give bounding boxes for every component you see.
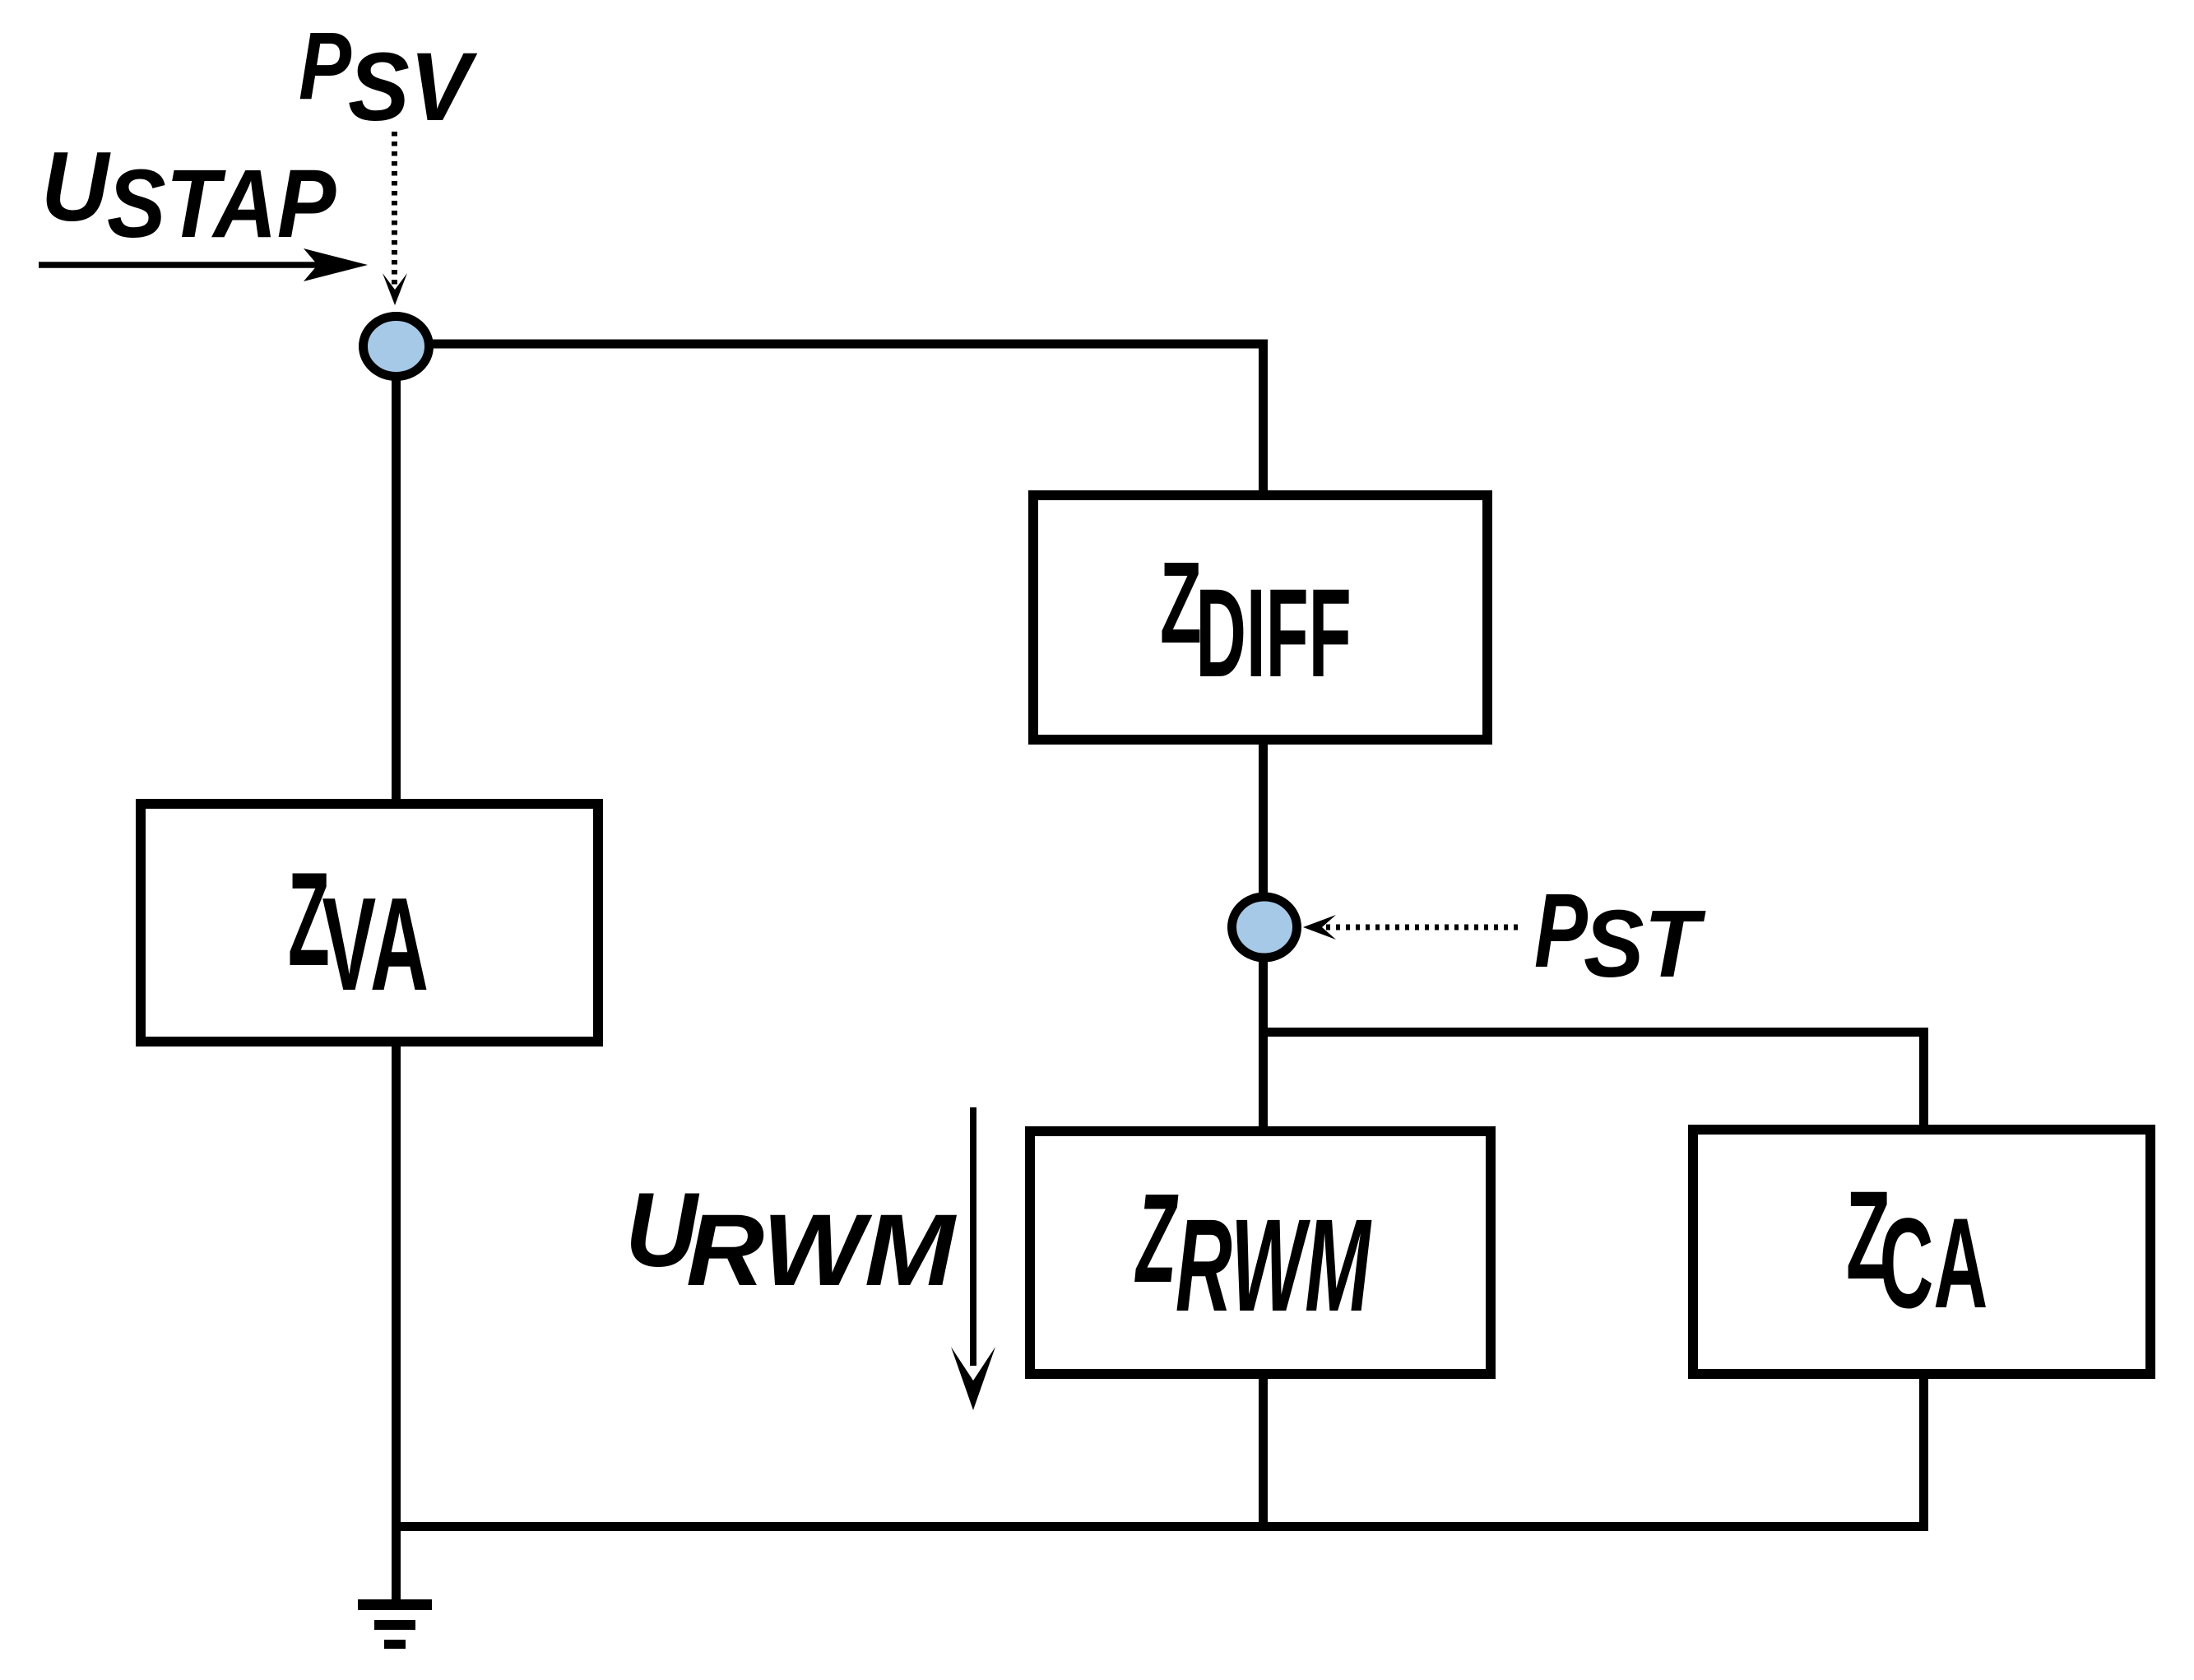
svg-text:STAP: STAP bbox=[107, 149, 336, 258]
box ZVA bbox=[141, 804, 598, 1042]
wire: node PSV down to ZVA top bbox=[392, 346, 401, 804]
svg-text:VA: VA bbox=[322, 870, 429, 1019]
svg-text:P: P bbox=[1534, 872, 1588, 990]
svg-text:U: U bbox=[41, 131, 111, 241]
wire: ZCA bottom to bottom rail bbox=[1919, 1369, 1928, 1531]
label PST bbox=[1534, 872, 1706, 996]
wire: ZVA bottom through bottom rail to ground bbox=[392, 1042, 401, 1599]
wire: node PST down into ZRWM top bbox=[1259, 927, 1268, 1136]
wire: node PSV to ZDIFF top (top horizontal + vertical drop) bbox=[396, 344, 1264, 505]
svg-text:SV: SV bbox=[348, 33, 478, 141]
ground bbox=[358, 1599, 432, 1649]
box ZRWM bbox=[1030, 1131, 1491, 1374]
wire: bottom rail bbox=[396, 1522, 1924, 1531]
label ZCA bbox=[1846, 1166, 1988, 1335]
svg-text:CA: CA bbox=[1880, 1192, 1988, 1336]
svg-text:ST: ST bbox=[1584, 890, 1706, 996]
svg-text:RWM: RWM bbox=[1176, 1192, 1372, 1339]
label USTAP bbox=[41, 131, 336, 258]
svg-text:RWM: RWM bbox=[686, 1194, 957, 1308]
wire: ZRWM bottom to bottom rail bbox=[1259, 1369, 1268, 1527]
svg-text:P: P bbox=[299, 12, 352, 119]
label ZRWM bbox=[1134, 1168, 1372, 1339]
label URWM bbox=[625, 1172, 957, 1307]
arrow PSV (dotted, down into node) bbox=[383, 132, 407, 305]
box ZCA bbox=[1693, 1130, 2150, 1374]
label ZDIFF bbox=[1160, 537, 1352, 703]
wire: branch from PST column right to ZCA top bbox=[1263, 1033, 1924, 1135]
arrow URWM (solid, down) bbox=[951, 1107, 995, 1410]
node PSV (junction dot) bbox=[364, 317, 429, 377]
label ZVA bbox=[288, 845, 429, 1019]
svg-text:DIFF: DIFF bbox=[1195, 564, 1351, 703]
label PSV bbox=[299, 12, 478, 141]
wire: ZDIFF bottom to node PST bbox=[1259, 735, 1268, 927]
arrow USTAP (solid, right) bbox=[39, 248, 368, 281]
arrow PST (dotted, left into node) bbox=[1303, 915, 1519, 940]
svg-text:Z: Z bbox=[1134, 1168, 1179, 1310]
box ZDIFF bbox=[1033, 495, 1487, 740]
node PST (junction dot) bbox=[1232, 897, 1297, 958]
